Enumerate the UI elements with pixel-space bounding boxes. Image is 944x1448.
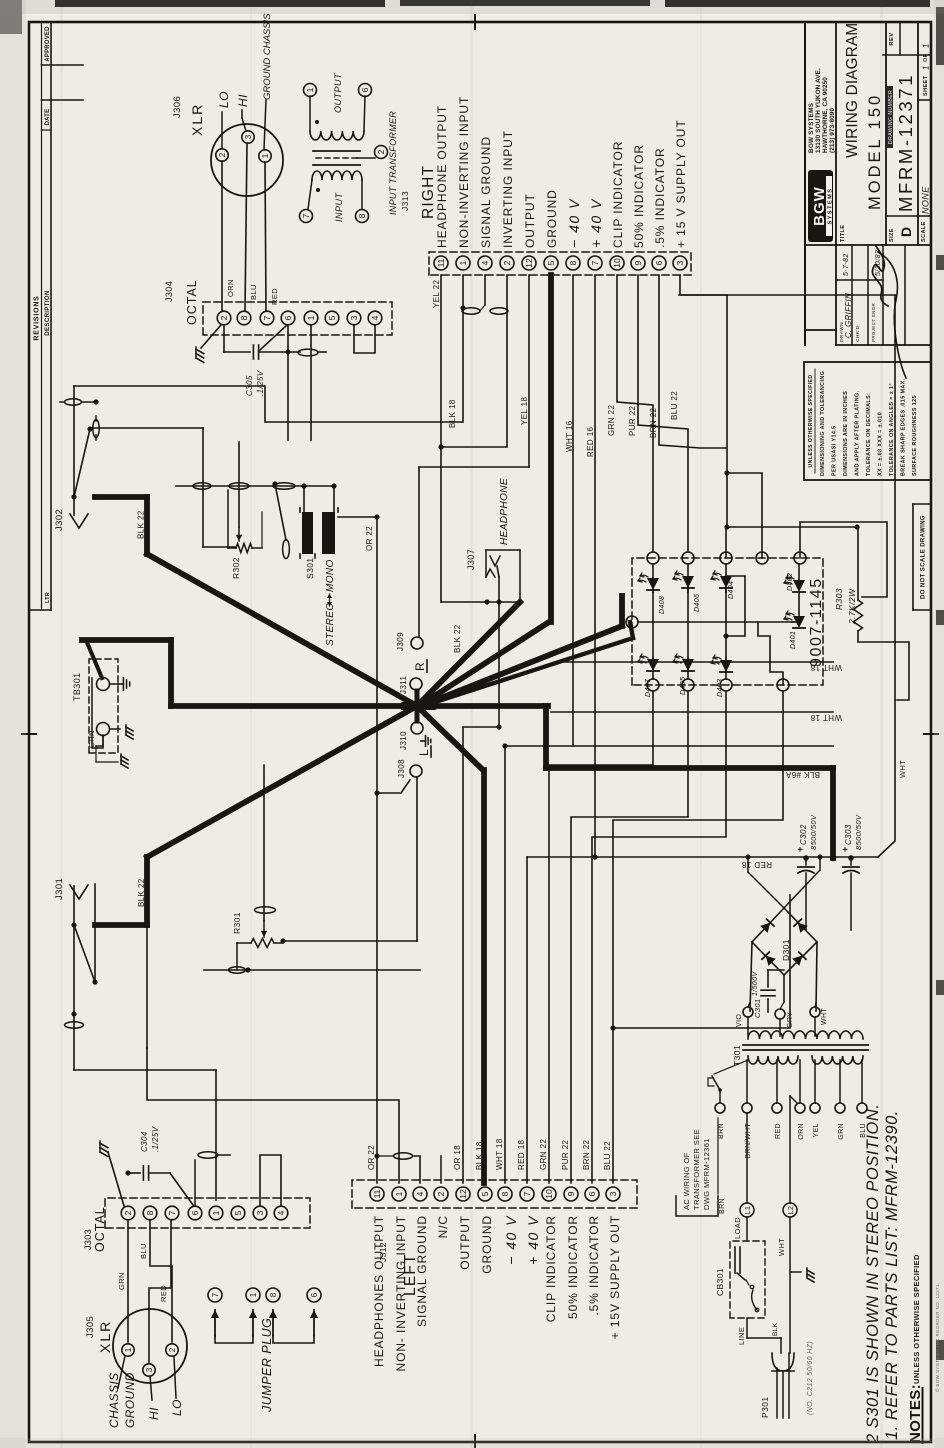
svg-text:OR 18: OR 18 [453, 1145, 462, 1170]
svg-text:(213) 973-8090: (213) 973-8090 [829, 108, 836, 153]
wire WHT16 J313-8 -40V [572, 275, 574, 746]
revisions table [29, 609, 51, 611]
svg-text:R: R [413, 662, 427, 671]
svg-text:9: 9 [566, 1191, 576, 1196]
svg-text:APPROVED: APPROVED [45, 26, 51, 62]
wire RED16 J313-7 +40V [594, 275, 596, 857]
svg-text:NON- INVERTING INPUT: NON- INVERTING INPUT [394, 1215, 408, 1371]
svg-text:RED: RED [775, 1123, 782, 1139]
wire RED J306-1 to J304-7 [265, 162, 266, 311]
bridge rectifier D301 [752, 908, 817, 975]
svg-text:NOTES:: NOTES: [907, 1384, 924, 1443]
jack J309 R output [411, 637, 423, 649]
wire WHT18 J312-8 -40V [504, 746, 506, 1183]
wire OR22 headphones output left [376, 517, 378, 1183]
svg-text:BREAK SHARP EDGES .015 MAX.: BREAK SHARP EDGES .015 MAX. [901, 378, 907, 476]
svg-text:CHK'D: CHK'D [855, 325, 861, 342]
thick wire star node [405, 702, 432, 710]
svg-text:6: 6 [587, 1191, 597, 1196]
thick wire J301 sleeve [95, 922, 147, 928]
svg-text:BLK #6A: BLK #6A [785, 770, 820, 779]
connector J305 XLR [113, 1309, 187, 1383]
capacitor C305 [223, 325, 225, 352]
svg-text:6: 6 [654, 260, 664, 265]
capacitor C303 [850, 858, 852, 865]
svg-text:13130 SOUTH YUKON AVE.: 13130 SOUTH YUKON AVE. [815, 68, 822, 153]
frame centering tick marks [22, 733, 36, 735]
wire S301 common [176, 485, 334, 487]
svg-text:OCTAL: OCTAL [185, 279, 199, 325]
svg-text:OUTPUT: OUTPUT [458, 1215, 472, 1270]
plug P301 [772, 1353, 794, 1371]
wire J312-2 stub [440, 1156, 442, 1183]
svg-text:YEL 18: YEL 18 [520, 397, 529, 425]
wire OR18 J312-12 to J307 [463, 727, 499, 1183]
transformer pin 8 [356, 210, 369, 223]
switch S301 [302, 512, 313, 554]
thick wire to TB301 [168, 640, 174, 706]
svg-text:11: 11 [372, 1189, 382, 1198]
svg-text:SCALE: SCALE [921, 221, 927, 242]
svg-text:SIGNAL GROUND: SIGNAL GROUND [479, 136, 493, 248]
input transformer core [313, 164, 360, 166]
svg-text:5: 5 [233, 1210, 243, 1215]
thick wire main bus vertical [171, 703, 548, 709]
svg-text:JUMPER PLUG: JUMPER PLUG [260, 1318, 274, 1413]
svg-text:1: 1 [124, 1347, 133, 1352]
svg-text:J301: J301 [54, 878, 65, 900]
svg-text:GROUND CHASSIS: GROUND CHASSIS [262, 13, 273, 100]
LED D407 [638, 654, 659, 671]
svg-text:7: 7 [301, 213, 311, 218]
svg-text:RED 18: RED 18 [741, 860, 772, 869]
wire rail BLK [505, 745, 833, 747]
jack J302 [70, 514, 88, 528]
svg-text:INPUT TRANSFORMER: INPUT TRANSFORMER [388, 111, 398, 215]
svg-text:D402: D402 [787, 573, 794, 591]
svg-text:D406: D406 [694, 594, 701, 612]
transformer pin 7 [300, 210, 313, 223]
svg-text:HAWTHORNE, CA 90250: HAWTHORNE, CA 90250 [822, 77, 829, 153]
wire J301 ring line [94, 884, 96, 982]
wire from J304-1 [310, 325, 312, 440]
svg-text:3: 3 [608, 1191, 618, 1196]
LED D402 [784, 575, 805, 592]
resistor R303 2.7K 2W [854, 600, 863, 631]
svg-text:2: 2 [376, 149, 386, 154]
svg-text:WIRING DIAGRAM: WIRING DIAGRAM [844, 23, 861, 158]
svg-text:GROUND: GROUND [123, 1372, 137, 1428]
svg-text:1: 1 [305, 87, 315, 92]
svg-text:1: 1 [394, 1191, 404, 1196]
svg-text:J308: J308 [397, 759, 406, 778]
svg-text:D: D [898, 226, 914, 237]
thick wire J302 diagonal to star [147, 554, 417, 706]
svg-text:BRN: BRN [718, 1123, 725, 1139]
svg-text:C303: C303 [844, 824, 853, 845]
svg-text:.5% INDICATOR: .5% INDICATOR [587, 1215, 601, 1316]
LED board internal wires [638, 621, 793, 623]
wire from J304-6 [287, 325, 289, 440]
svg-text:BRN/WHT: BRN/WHT [745, 1123, 752, 1159]
capacitor C304 [128, 1172, 140, 1174]
LED D403 [711, 655, 732, 672]
svg-text:8: 8 [500, 1191, 510, 1196]
svg-text:BGW: BGW [811, 186, 828, 226]
svg-text:+: + [840, 846, 850, 852]
thick wire star to J307 sleeve [417, 602, 520, 706]
wire TB301 jumper [92, 678, 103, 748]
svg-text:XLR: XLR [97, 1320, 113, 1353]
svg-text:C301: C301 [753, 998, 762, 1018]
transformer pin 6 [359, 84, 372, 97]
svg-text:BLU 22: BLU 22 [603, 1141, 612, 1170]
svg-text:UNLESS OTHERWISE SPECIFIED: UNLESS OTHERWISE SPECIFIED [808, 374, 814, 467]
wire J313-2 inverting input [441, 275, 507, 447]
svg-text:SHEET: SHEET [923, 75, 929, 96]
svg-text:WHT: WHT [898, 760, 907, 778]
svg-text:3: 3 [145, 1367, 154, 1372]
wire L2 WHT [789, 1217, 791, 1353]
svg-text:DIMENSIONING AND TOLERANCING: DIMENSIONING AND TOLERANCING [820, 371, 826, 476]
svg-text:J313: J313 [400, 191, 410, 211]
LED D406 [673, 571, 694, 588]
wire +15V to R303 and LEDs [857, 527, 859, 600]
thick wire bus to supply [543, 706, 549, 768]
svg-text:J309: J309 [396, 632, 405, 651]
svg-text:+ 40 V: + 40 V [525, 1215, 541, 1265]
wire CB301 line side [746, 1318, 748, 1338]
svg-text:4: 4 [276, 1210, 286, 1215]
do not scale drawing cell [912, 504, 914, 610]
svg-text:UNLESS OTHERWISE SPECIFIED: UNLESS OTHERWISE SPECIFIED [912, 1254, 921, 1384]
wire J301 tip line [73, 886, 75, 1070]
title block outline [804, 22, 806, 345]
svg-text:2: 2 [436, 1191, 446, 1196]
svg-text:GRN: GRN [117, 1272, 126, 1290]
svg-text:NON-INVERTING INPUT: NON-INVERTING INPUT [457, 96, 471, 248]
LED display board 9007-1145 [632, 558, 823, 685]
svg-text:AC WIRING OF: AC WIRING OF [682, 1152, 691, 1210]
svg-text:HEADPHONE OUTPUT: HEADPHONE OUTPUT [435, 105, 449, 248]
svg-text:TB301: TB301 [72, 672, 82, 701]
svg-text:7: 7 [522, 1191, 532, 1196]
svg-text:L2: L2 [788, 1206, 795, 1215]
svg-text:OR 22: OR 22 [365, 526, 374, 551]
svg-text:3: 3 [244, 134, 253, 139]
project engineer signature [872, 246, 888, 306]
thick wire star to LED board common [421, 626, 622, 706]
svg-text:N/C: N/C [436, 1215, 450, 1238]
svg-text:LTR: LTR [45, 592, 51, 603]
svg-text:MODEL 150: MODEL 150 [866, 93, 884, 210]
wire BRN22 J313-6 [659, 275, 726, 448]
svg-text:OCTAL: OCTAL [93, 1206, 107, 1252]
jack J301 contact arm [74, 925, 95, 982]
connector J303 octal socket [105, 1198, 310, 1228]
connector J313 (right channel card edge) [429, 252, 691, 275]
svg-text:BLU: BLU [249, 284, 258, 300]
svg-text:CLIP INDICATOR: CLIP INDICATOR [611, 141, 625, 248]
svg-text:LOAD: LOAD [733, 1217, 742, 1239]
svg-text:1: 1 [922, 43, 931, 48]
svg-text:RED: RED [270, 288, 279, 305]
svg-text:50% INDICATOR: 50% INDICATOR [632, 144, 646, 248]
svg-text:2.7K/2W: 2.7K/2W [847, 588, 857, 625]
svg-text:5: 5 [327, 315, 337, 320]
svg-text:SIZE: SIZE [889, 228, 895, 242]
wire LED D404 anode to +15V [725, 527, 727, 558]
T301 secondary winding [748, 1031, 863, 1039]
svg-text:2: 2 [123, 1210, 133, 1215]
scan artifact: dark ticks along bottom edge [936, 1340, 944, 1360]
headphone jack J307 [441, 601, 520, 603]
wire GRN22 J313-10 to D408 [617, 275, 653, 552]
svg-text:BLU: BLU [860, 1123, 867, 1138]
svg-text:MFRM-12371: MFRM-12371 [895, 73, 916, 212]
transformer pin 2 shield tap [375, 146, 388, 159]
svg-text:C304: C304 [140, 1131, 149, 1152]
svg-text:S301: S301 [305, 558, 315, 579]
wire J312-1 non-inverting input [147, 1048, 399, 1183]
svg-text:8: 8 [568, 260, 578, 265]
svg-text:LO: LO [217, 91, 231, 108]
svg-text:4: 4 [415, 1191, 425, 1196]
svg-text:HEADPHONES OUTPUT: HEADPHONES OUTPUT [372, 1215, 386, 1367]
svg-text:1. REFER TO PARTS LIST: MFRM-1: 1. REFER TO PARTS LIST: MFRM-12390. [883, 1110, 901, 1440]
svg-text:GRN 22: GRN 22 [607, 405, 616, 436]
svg-text:DIMENSIONS ARE IN INCHES: DIMENSIONS ARE IN INCHES [843, 391, 849, 476]
jumper plug [208, 1288, 222, 1302]
J305 pin annotation leads [118, 1356, 125, 1388]
wire BLU J303-8 to J305-2 [150, 1220, 172, 1342]
svg-text:DESCRIPTION: DESCRIPTION [45, 290, 51, 335]
svg-text:2: 2 [502, 260, 512, 265]
svg-text:6: 6 [310, 1292, 319, 1297]
svg-text:DATE: DATE [45, 109, 51, 126]
svg-text:− 40 V: − 40 V [503, 1215, 519, 1265]
svg-text:.5% INDICATOR: .5% INDICATOR [653, 147, 667, 248]
svg-text:1: 1 [922, 65, 931, 70]
AC wiring note [676, 1196, 718, 1216]
svg-text:BGW SYSTEMS: BGW SYSTEMS [808, 102, 815, 153]
svg-text:C. GRIFFIN: C. GRIFFIN [844, 293, 853, 338]
svg-text:J304: J304 [164, 281, 174, 302]
chassis ground at TB301 [110, 728, 120, 730]
wire to octal J303 pin1 [74, 1069, 216, 1071]
wire LED D402 chain to R303 [800, 522, 887, 597]
svg-text:6: 6 [283, 315, 293, 320]
svg-text:GRN: GRN [838, 1123, 845, 1140]
LED D405 [673, 654, 694, 671]
wire BLU22 branch to supply [613, 895, 790, 1028]
svg-text:+ 15 V SUPPLY OUT: + 15 V SUPPLY OUT [674, 119, 688, 248]
wire J302 ring [95, 435, 97, 440]
wire RED18 J312-7 [526, 857, 528, 1183]
wire PUR22 J312-9 to D405 [571, 691, 688, 1183]
svg-text:BLU: BLU [139, 1243, 148, 1259]
thick wire J302 sleeve [144, 497, 150, 554]
input transformer T input winding [312, 171, 362, 180]
svg-text:2 S301 IS SHOWN IN STEREO POS: 2 S301 IS SHOWN IN STEREO POSITION. [864, 1104, 882, 1444]
svg-text:TOLERANCE ON ANGLES = ± 1°: TOLERANCE ON ANGLES = ± 1° [889, 383, 895, 476]
trimmer R302 [236, 544, 252, 553]
tolerance block [804, 362, 931, 480]
svg-text:− 40 V: − 40 V [566, 198, 582, 248]
svg-text:RED: RED [159, 1285, 168, 1302]
LED D408 [638, 573, 659, 590]
svg-text:P301: P301 [760, 1397, 770, 1418]
svg-text:DWG MFRM-12361: DWG MFRM-12361 [702, 1138, 711, 1210]
svg-text:SURFACE ROUGHNESS 125: SURFACE ROUGHNESS 125 [912, 395, 918, 476]
svg-text:LO: LO [170, 1399, 184, 1416]
svg-text:REV: REV [889, 32, 895, 45]
svg-text:10: 10 [544, 1189, 554, 1199]
svg-text:+: + [795, 846, 805, 852]
svg-text:D404: D404 [728, 581, 735, 599]
svg-text:GROUND: GROUND [545, 189, 559, 248]
wire ORN J306-2 to J304-2 [221, 161, 223, 311]
chassis ground at J304-2 [201, 325, 221, 348]
svg-text:STEREO: STEREO [325, 602, 336, 646]
svg-text:+ 40 V: + 40 V [588, 198, 604, 248]
svg-text:WHT: WHT [821, 1008, 828, 1025]
svg-text:LINE: LINE [737, 1327, 746, 1345]
svg-text:BRN 22: BRN 22 [582, 1139, 591, 1170]
svg-text:(NO. C212 50/60 HZ): (NO. C212 50/60 HZ) [807, 1341, 814, 1415]
scan artifact: dark band at sheet right edge [55, 0, 385, 7]
earth ground at TB301 [110, 683, 118, 685]
wire J313-4 signal ground [484, 275, 486, 305]
wire J312-4 signal ground [414, 1156, 420, 1183]
power switch on BRN lead [719, 1092, 721, 1103]
svg-text:7: 7 [262, 315, 272, 320]
svg-text:1: 1 [261, 153, 270, 158]
drawn / checked cells [836, 279, 883, 281]
svg-text:VIO: VIO [736, 1014, 743, 1027]
capacitor C301 [767, 999, 769, 1012]
svg-text:TRANSFORMER SEE: TRANSFORMER SEE [692, 1129, 701, 1210]
wire GRN from TB301 [102, 736, 104, 746]
wire bridge to +40 rail [748, 872, 784, 908]
svg-text:WHT 18: WHT 18 [810, 713, 842, 722]
svg-text:PUR 22: PUR 22 [628, 405, 637, 436]
connector J306 XLR [211, 124, 283, 196]
svg-text:C302: C302 [799, 824, 808, 845]
svg-text:D407: D407 [645, 678, 652, 697]
wire BRN note to switch [717, 1118, 719, 1194]
svg-text:.1/25V: .1/25V [256, 370, 265, 396]
svg-text:MONO: MONO [325, 559, 336, 592]
svg-text:OUTPUT: OUTPUT [333, 72, 343, 113]
transformer pin 1 [304, 84, 317, 97]
svg-text:R301: R301 [232, 912, 242, 934]
T301 primary terminals [746, 1060, 748, 1103]
wire rail WHT18 A [556, 661, 833, 663]
chassis ground at J303-2 [108, 1152, 124, 1206]
svg-text:BLK 22: BLK 22 [453, 624, 462, 653]
svg-text:GRN: GRN [87, 730, 96, 748]
jack J308 L output [410, 765, 422, 777]
svg-text:HI: HI [236, 94, 250, 107]
svg-text:ORN: ORN [798, 1123, 805, 1140]
wire S301 to OR22 [338, 516, 377, 518]
svg-text:XLR: XLR [189, 103, 205, 136]
svg-text:D405: D405 [680, 677, 687, 695]
trimmer R301 [251, 939, 274, 948]
svg-text:D408: D408 [659, 596, 666, 614]
svg-text:D403: D403 [717, 679, 724, 697]
jumper J304 pins 3-4 [354, 325, 375, 353]
svg-text:J311: J311 [399, 675, 408, 694]
svg-text:BLU 22: BLU 22 [670, 391, 679, 420]
svg-text:5: 5 [480, 1191, 490, 1196]
svg-text:1: 1 [249, 1292, 258, 1297]
svg-text:2: 2 [168, 1347, 177, 1352]
svg-text:+ 15V SUPPLY OUT: + 15V SUPPLY OUT [608, 1215, 622, 1339]
T301 primary winding upper [748, 1056, 798, 1064]
svg-text:WHT 18: WHT 18 [495, 1138, 504, 1170]
svg-text:OF: OF [923, 53, 929, 62]
wire J308 to R301 [416, 777, 418, 941]
svg-text:BLK 22: BLK 22 [137, 878, 146, 907]
svg-text:3: 3 [675, 260, 685, 265]
svg-text:AND APPLY AFTER PLATING.: AND APPLY AFTER PLATING. [855, 390, 861, 476]
svg-text:R303: R303 [834, 588, 844, 610]
svg-text:PROJECT ENGR: PROJECT ENGR [871, 303, 876, 342]
svg-text:12: 12 [524, 258, 534, 268]
svg-text:8: 8 [145, 1210, 155, 1215]
svg-text:NONE: NONE [921, 186, 931, 214]
svg-text:3: 3 [255, 1210, 265, 1215]
svg-text:SYSTEMS: SYSTEMS [828, 188, 834, 225]
svg-text:8: 8 [239, 315, 249, 320]
svg-text:HEADPHONE: HEADPHONE [499, 478, 510, 545]
jumper J303 pins 3-4 [260, 1155, 281, 1205]
terminal strip TB301 [89, 659, 118, 753]
wire from J303-6 with hop [194, 1160, 196, 1205]
wire J313-1 non-inverting input [74, 275, 463, 422]
svg-text:2: 2 [219, 315, 229, 320]
svg-text:6: 6 [190, 1210, 200, 1215]
wire +15V supply run [878, 700, 895, 857]
wire BRN22 J312-6 to D403 [592, 691, 726, 1183]
svg-text:L1: L1 [745, 1206, 752, 1215]
wire GRN22 J312-10 to D407 [549, 691, 653, 1183]
input transformer output winding [310, 131, 364, 140]
svg-text:3: 3 [349, 315, 359, 320]
svg-text:OUTPUT: OUTPUT [523, 193, 537, 248]
svg-text:REVISIONS: REVISIONS [34, 295, 41, 340]
chassis ground on WHT [790, 1271, 801, 1273]
jack J310 L input [411, 722, 423, 734]
svg-text:J305: J305 [85, 1316, 96, 1338]
svg-text:4: 4 [370, 315, 380, 320]
svg-text:OR 22: OR 22 [367, 1145, 376, 1170]
transformer T301 [743, 1049, 868, 1051]
svg-text:12: 12 [458, 1189, 468, 1199]
wire J307 tip to OR18 [498, 577, 500, 727]
thick wire J301 diagonal to star [147, 706, 417, 857]
svg-text:5-7-82: 5-7-82 [843, 253, 850, 276]
LED D404 [711, 571, 732, 588]
thick wire star to J312-5 (BLK18 left) [417, 706, 483, 770]
svg-text:9007-1145: 9007-1145 [808, 577, 825, 667]
thick wire star to J313-5 GROUND (BLK18) [419, 622, 549, 706]
wire PUR22 J313-9 to D406 [638, 275, 688, 552]
svg-text:DO NOT SCALE DRAWING: DO NOT SCALE DRAWING [921, 515, 927, 599]
svg-text:J302: J302 [54, 509, 65, 531]
